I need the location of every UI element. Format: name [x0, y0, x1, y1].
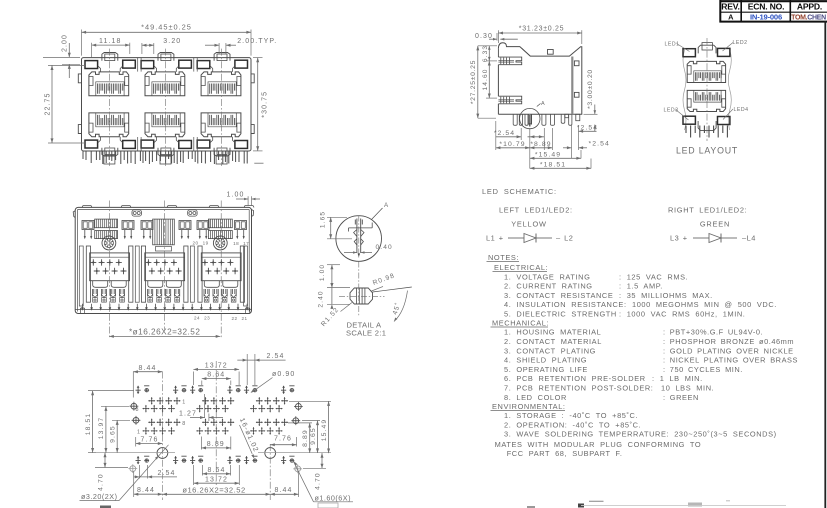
back view bottom corner feet — [80, 308, 84, 313]
svg-text:1.65: 1.65 — [320, 211, 327, 228]
svg-text:1000 MEGOHMS MIN @ 500 VDC.: 1000 MEGOHMS MIN @ 500 VDC. — [632, 300, 777, 309]
dimension 8.89 right — [288, 422, 312, 424]
sheet right border — [824, 21, 826, 508]
dimension 8.44 bottom left — [133, 472, 135, 498]
LED layout bottom tab — [698, 121, 716, 130]
detail A leader label — [372, 208, 383, 220]
svg-text:: 750 CYCLES MIN.: : 750 CYCLES MIN. — [663, 365, 743, 374]
side view body outline — [497, 49, 499, 57]
svg-text:1.00: 1.00 — [319, 264, 326, 281]
dimension 27.25 overall height — [478, 45, 497, 47]
svg-text:*30.75: *30.75 — [262, 91, 269, 118]
svg-text:2. CURRENT RATING: 2. CURRENT RATING — [504, 282, 593, 291]
svg-text:14.60: 14.60 — [482, 68, 489, 90]
svg-text:*ø16.26X2=32.52: *ø16.26X2=32.52 — [129, 327, 200, 336]
dimension 18.51 side — [530, 167, 591, 169]
dimension 0.40 detail — [344, 252, 357, 254]
pcb centerlines — [161, 372, 163, 501]
svg-text:8: 8 — [182, 421, 186, 427]
svg-text:IN-19-006: IN-19-006 — [750, 12, 782, 21]
svg-text:: 1000 VAC RMS 60Hz, 1MIN.: : 1000 VAC RMS 60Hz, 1MIN. — [619, 310, 745, 319]
side view detail pin inside circle — [528, 114, 531, 126]
svg-text:NOTES:: NOTES: — [488, 253, 519, 262]
svg-text:: NICKEL PLATING OVER BRASS: : NICKEL PLATING OVER BRASS — [663, 356, 798, 365]
svg-text:8. LED COLOR: 8. LED COLOR — [504, 393, 567, 402]
svg-text:8.89: 8.89 — [302, 429, 309, 447]
svg-text:: 125 VAC RMS.: : 125 VAC RMS. — [619, 272, 688, 281]
dimension 15.49 right — [289, 400, 331, 402]
dimension 1.00 back view — [247, 196, 249, 206]
svg-text:2.40: 2.40 — [318, 290, 325, 307]
svg-text:13.72: 13.72 — [205, 476, 228, 483]
svg-text:– L2: – L2 — [556, 234, 573, 243]
svg-text:ø0.90: ø0.90 — [272, 371, 295, 378]
back view centerlines — [109, 201, 111, 339]
dimension 7.76 right — [296, 437, 298, 447]
svg-text:L3 +: L3 + — [670, 234, 688, 243]
svg-text:ENVIRONMENTAL:: ENVIRONMENTAL: — [492, 402, 566, 411]
front view jack port 3 upper — [197, 53, 247, 96]
svg-text:: 1 LB MIN.: : 1 LB MIN. — [652, 374, 703, 383]
dimension 2.54 top right — [579, 130, 597, 132]
front view jack port 6 lower (mirrored) — [197, 113, 247, 156]
back view bottom shield leg arrows — [81, 304, 83, 308]
detail A press-fit pin — [349, 223, 373, 232]
svg-text:ECN. NO.: ECN. NO. — [748, 1, 785, 11]
dimension 13.72 bottom — [193, 465, 195, 485]
side view latch arm upper — [498, 57, 521, 65]
svg-text:ø1.60(6X): ø1.60(6X) — [315, 493, 351, 502]
dimension 7.76 left — [135, 437, 137, 447]
svg-text:: 35 MILLIOHMS MAX.: : 35 MILLIOHMS MAX. — [619, 291, 713, 300]
svg-text:*27.25±0.25: *27.25±0.25 — [470, 60, 477, 104]
svg-text:*31.23±0.25: *31.23±0.25 — [519, 25, 564, 32]
dimension 14.60 — [486, 60, 497, 62]
svg-text:22.75: 22.75 — [45, 92, 52, 115]
LED layout upper jack — [683, 48, 730, 82]
svg-text:: 1.5 AMP.: : 1.5 AMP. — [619, 282, 663, 291]
LED layout bottom pins — [686, 126, 727, 138]
dimension 2.40 detail — [327, 287, 350, 289]
svg-text:23: 23 — [204, 316, 210, 321]
svg-text:8.44: 8.44 — [138, 365, 156, 372]
pcb 3.20 mounting holes — [157, 448, 168, 459]
svg-text:7. PCB RETENTION POST-SOLDER:: 7. PCB RETENTION POST-SOLDER: — [504, 384, 653, 393]
LED layout centerline — [706, 38, 708, 141]
dimension 49.45 overall width — [81, 30, 83, 56]
svg-text:–L4: –L4 — [742, 234, 756, 243]
svg-text:8.64: 8.64 — [207, 372, 225, 379]
svg-text:15.49: 15.49 — [321, 419, 328, 442]
dimension 15.49 side — [530, 157, 581, 159]
svg-text:: PHOSPHOR BRONZE ø0.46mm: : PHOSPHOR BRONZE ø0.46mm — [663, 337, 794, 346]
front view jack port 1 upper — [85, 53, 135, 96]
back view card openings — [86, 246, 90, 302]
svg-text:8.89: 8.89 — [207, 441, 225, 448]
svg-text:13.72: 13.72 — [205, 362, 228, 369]
side view bottom dimension extension lines — [520, 128, 522, 140]
dimension 4.70 right — [303, 467, 326, 469]
dimension 1.65 detail — [327, 216, 347, 218]
diode L3-L4 — [670, 234, 756, 243]
svg-text:1. HOUSING MATERIAL: 1. HOUSING MATERIAL — [504, 328, 601, 337]
dimension 9.65 right — [302, 420, 320, 422]
svg-text:3. WAVE SOLDERING TEMPERRATURE: 3. WAVE SOLDERING TEMPERRATURE: 230~250˚… — [504, 430, 777, 439]
dimension 16.26X2 back view — [109, 335, 220, 337]
svg-text:*18.51: *18.51 — [540, 161, 566, 168]
svg-text:2. CONTACT MATERIAL: 2. CONTACT MATERIAL — [504, 337, 602, 346]
bottom cut-off marks — [100, 506, 111, 508]
dimension 31.23 overall depth — [497, 30, 499, 43]
svg-text:2.00.TYP.: 2.00.TYP. — [237, 38, 277, 45]
svg-text:*2.54: *2.54 — [577, 124, 598, 131]
dimension 1.27 — [204, 394, 206, 418]
back view screw ears — [132, 210, 141, 216]
front view jack port 2 upper — [141, 53, 191, 96]
svg-text:1: 1 — [137, 430, 141, 436]
svg-text:6.33: 6.33 — [482, 45, 489, 62]
back view contact blocks top band — [95, 219, 118, 228]
front view body outline — [82, 58, 252, 151]
svg-text:LEFT LED1/LED2:: LEFT LED1/LED2: — [499, 206, 573, 215]
front view column seam lines — [137, 58, 139, 72]
front view jack port 4 lower (mirrored) — [85, 113, 135, 156]
title block table — [720, 0, 827, 23]
dimension 1.00 detail — [327, 264, 340, 266]
svg-text:*10.79: *10.79 — [499, 141, 525, 148]
svg-text:9.65: 9.65 — [110, 425, 117, 443]
svg-text:*3.00±0.20: *3.00±0.20 — [587, 69, 594, 109]
svg-text:4. INSULATION RESISTANCE:: 4. INSULATION RESISTANCE: — [504, 300, 627, 309]
front view jack centerlines — [108, 49, 110, 166]
svg-text:2.00: 2.00 — [61, 34, 68, 52]
svg-text:LED LAYOUT: LED LAYOUT — [676, 146, 738, 156]
back view top corner wings — [73, 211, 75, 218]
svg-text:6. PCB RETENTION PRE-SOLDER: 6. PCB RETENTION PRE-SOLDER — [504, 374, 646, 383]
svg-text:*2.54: *2.54 — [589, 140, 610, 147]
svg-text:4. SHIELD PLATING: 4. SHIELD PLATING — [504, 356, 587, 365]
svg-text:GREEN: GREEN — [700, 220, 730, 229]
svg-text:ø3.20(2X): ø3.20(2X) — [81, 492, 117, 501]
svg-text:13.97: 13.97 — [98, 417, 105, 440]
svg-text:7.76: 7.76 — [140, 437, 158, 444]
svg-text:8.44: 8.44 — [137, 487, 155, 494]
dimension 2.54 top — [246, 354, 248, 385]
dimension 2.00 left — [43, 56, 80, 58]
svg-text:18.51: 18.51 — [85, 413, 92, 436]
dimension 8.89 side — [530, 147, 553, 149]
back view torx screws — [102, 236, 116, 250]
dimension 2.54 bottom left — [138, 465, 140, 479]
side view detail A circle — [520, 108, 540, 128]
side view right wall holes — [574, 61, 579, 66]
svg-text:MECHANICAL:: MECHANICAL: — [492, 318, 549, 327]
svg-text:8.44: 8.44 — [274, 487, 292, 494]
45 degree note detail — [373, 287, 412, 292]
dimension 3.00 right — [584, 113, 598, 115]
side view bottom pins — [513, 114, 517, 125]
side view top hole — [548, 50, 554, 55]
svg-text:YELLOW: YELLOW — [511, 220, 547, 229]
svg-text:RIGHT LED1/LED2:: RIGHT LED1/LED2: — [668, 206, 747, 215]
svg-text:ø16.26X2=32.52: ø16.26X2=32.52 — [182, 485, 245, 494]
svg-text:LED4: LED4 — [734, 107, 749, 113]
side view inner shield wall — [571, 57, 573, 115]
svg-text:10 LBS MIN.: 10 LBS MIN. — [661, 384, 714, 393]
diode L1-L2 — [486, 234, 573, 243]
svg-text:2. OPERATION: -40˚C TO +85˚C.: 2. OPERATION: -40˚C TO +85˚C. — [504, 420, 641, 429]
back view separator bars — [135, 246, 139, 302]
dimension 9.65 left — [112, 419, 130, 421]
svg-text:ELECTRICAL:: ELECTRICAL: — [494, 263, 548, 272]
back view center tall hatch block — [153, 219, 175, 245]
svg-text:4.70: 4.70 — [98, 473, 105, 491]
svg-text:: GOLD PLATING OVER NICKLE: : GOLD PLATING OVER NICKLE — [663, 346, 794, 355]
dimension 4.70 left — [95, 467, 128, 469]
dimension 2.54 right row2 — [567, 146, 572, 149]
svg-text:A: A — [728, 13, 734, 22]
dimension 30.75 right — [253, 57, 263, 59]
dimension 6.33 — [488, 46, 490, 61]
svg-text:LED2: LED2 — [733, 40, 748, 46]
dimension 18.51 left — [88, 390, 134, 392]
dimension 10.79 — [496, 147, 530, 149]
pcb signal pin pads — [148, 397, 155, 405]
dimension 13.97 left — [101, 405, 129, 407]
dimension 2.00 TYP — [218, 43, 220, 54]
front view bottom solder pins — [83, 151, 247, 164]
svg-text:7.76: 7.76 — [274, 436, 292, 443]
svg-text:FCC PART 68, SUBPART F.: FCC PART 68, SUBPART F. — [507, 449, 623, 458]
dimension 8.44 bottom right — [298, 472, 300, 498]
svg-text:3. CONTACT RESISTANCE: 3. CONTACT RESISTANCE — [504, 291, 613, 300]
svg-text:24: 24 — [194, 316, 200, 321]
svg-text:11.18: 11.18 — [99, 38, 122, 45]
svg-text:1.00: 1.00 — [226, 192, 244, 199]
svg-text:A: A — [541, 101, 545, 107]
back view contact units — [82, 221, 94, 230]
dimension 3.20 — [141, 43, 143, 54]
svg-text:1: 1 — [182, 399, 186, 405]
dimension 8.89 middle — [200, 437, 202, 450]
svg-text:22: 22 — [231, 316, 237, 321]
svg-text:A: A — [384, 202, 389, 209]
front view side EMI tabs — [78, 74, 81, 83]
svg-text:SCALE 2:1: SCALE 2:1 — [346, 329, 386, 338]
back view body outline — [75, 207, 251, 313]
svg-text:*15.49: *15.49 — [535, 151, 561, 158]
svg-text:L1 +: L1 + — [486, 234, 504, 243]
dimension 16.26X2 bottom — [162, 493, 270, 495]
front view jack port 5 lower (mirrored) — [141, 113, 191, 156]
svg-text:: PBT+30%.G.F UL94V-0.: : PBT+30%.G.F UL94V-0. — [663, 328, 763, 337]
detail pin cross-section hex — [350, 288, 373, 304]
svg-text:APPD.: APPD. — [797, 1, 822, 11]
svg-text:4.70: 4.70 — [315, 472, 322, 490]
svg-text:18: 18 — [233, 241, 239, 246]
svg-text:LED3: LED3 — [664, 108, 679, 114]
svg-text:LED1: LED1 — [665, 42, 680, 48]
svg-text:19: 19 — [203, 240, 209, 245]
svg-text:*8.89: *8.89 — [530, 141, 551, 148]
svg-text:1.27: 1.27 — [179, 410, 197, 417]
detail A circle — [336, 216, 382, 262]
dimension 8.44 top left — [132, 372, 134, 398]
svg-text:9.65: 9.65 — [310, 427, 317, 445]
svg-text:: GREEN: : GREEN — [663, 393, 699, 402]
dimension 11.18 — [91, 43, 93, 58]
dimension 22.75 — [48, 64, 85, 66]
pcb shield pad row top — [136, 386, 141, 394]
svg-text:5. DIELECTRIC STRENGTH: 5. DIELECTRIC STRENGTH — [504, 310, 617, 319]
back view top edge tabs — [82, 206, 92, 208]
svg-text:MATES WITH MODULAR PLUG CONFOR: MATES WITH MODULAR PLUG CONFORMING TO — [495, 440, 702, 449]
svg-text:5. OPERATING LIFE: 5. OPERATING LIFE — [504, 365, 588, 374]
svg-text:0.40: 0.40 — [376, 244, 393, 251]
svg-text:2.54: 2.54 — [266, 353, 284, 360]
svg-text:3.20: 3.20 — [163, 38, 181, 45]
dimension 13.72 top — [192, 372, 194, 386]
svg-text:*2.54: *2.54 — [494, 130, 515, 137]
pcb 1.60 holes — [130, 402, 139, 411]
svg-text:1. VOLTAGE RATING: 1. VOLTAGE RATING — [504, 272, 590, 281]
svg-text:TOM.CHEN: TOM.CHEN — [791, 14, 826, 21]
dimension 8.64 top — [201, 381, 203, 386]
pcb shield pad row bottom — [136, 456, 141, 464]
svg-text:REV.: REV. — [721, 1, 739, 11]
svg-text:2.54: 2.54 — [157, 470, 175, 477]
dimension 8.64 bottom — [201, 465, 203, 476]
LED layout lower jack (mirrored) — [683, 90, 730, 124]
svg-text:1. STORAGE : -40˚C TO +85˚C.: 1. STORAGE : -40˚C TO +85˚C. — [504, 411, 638, 420]
svg-text:LED SCHEMATIC:: LED SCHEMATIC: — [482, 187, 557, 196]
LED layout view single column jack — [683, 43, 731, 130]
svg-text:21: 21 — [241, 316, 247, 321]
dimension 2.54 pin row 1 — [496, 136, 521, 138]
svg-text:17: 17 — [243, 241, 249, 246]
svg-text:*49.45±0.25: *49.45±0.25 — [141, 22, 192, 31]
revision A entry — [728, 12, 826, 21]
svg-text:8.64: 8.64 — [207, 467, 225, 474]
svg-text:20: 20 — [192, 240, 198, 245]
svg-text:3. CONTACT PLATING: 3. CONTACT PLATING — [504, 346, 596, 355]
